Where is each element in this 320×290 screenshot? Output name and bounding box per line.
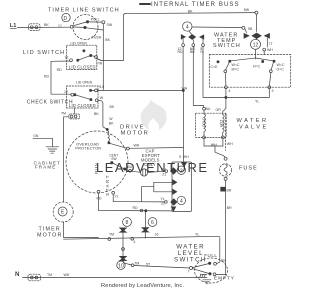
svg-text:BK: BK [94, 112, 99, 116]
svg-text:YL: YL [255, 100, 259, 104]
svg-text:PUSH: PUSH [92, 36, 102, 40]
svg-text:BK: BK [110, 105, 115, 109]
svg-text:HG: HG [221, 258, 226, 262]
svg-text:7: 7 [188, 270, 190, 274]
svg-text:2: 2 [180, 168, 183, 174]
svg-text:LID OPEN: LID OPEN [76, 81, 93, 85]
svg-text:BR: BR [227, 189, 232, 193]
svg-text:TM: TM [61, 112, 66, 116]
svg-text:O=C: O=C [277, 67, 285, 71]
svg-text:D: D [64, 16, 68, 22]
svg-text:START: START [105, 174, 110, 196]
svg-text:TM: TM [47, 273, 52, 277]
svg-text:WATER: WATER [237, 118, 269, 124]
svg-text:16: 16 [155, 233, 159, 237]
svg-text:YL: YL [195, 233, 199, 237]
svg-text:12: 12 [253, 42, 259, 48]
svg-text:YL: YL [161, 197, 165, 201]
svg-text:8: 8 [126, 220, 129, 226]
svg-text:5B: 5B [248, 27, 253, 31]
svg-text:4: 4 [134, 240, 136, 244]
svg-text:HOT: HOT [220, 119, 224, 127]
svg-text:PULL: PULL [91, 17, 100, 21]
svg-text:WH: WH [64, 273, 70, 277]
svg-text:VALVE: VALVE [239, 125, 269, 131]
svg-text:4: 4 [229, 89, 231, 93]
svg-text:WH: WH [182, 86, 188, 90]
svg-text:COLD: COLD [202, 117, 206, 127]
svg-text:E: E [61, 210, 65, 216]
svg-text:FRAME: FRAME [35, 165, 56, 170]
svg-text:INTERNAL TIMER BUSS: INTERNAL TIMER BUSS [151, 2, 240, 8]
svg-text:TM: TM [134, 262, 139, 266]
svg-text:RUN: RUN [94, 162, 99, 173]
svg-text:LI: LI [59, 24, 62, 28]
svg-text:12: 12 [65, 56, 69, 60]
svg-text:LID CLOSED: LID CLOSED [69, 65, 96, 70]
svg-text:FUSE: FUSE [239, 165, 258, 171]
svg-text:SW: SW [111, 157, 117, 161]
svg-text:7W: 7W [97, 61, 103, 65]
svg-text:L1: L1 [10, 23, 17, 29]
svg-text:12: 12 [64, 90, 68, 94]
svg-text:Rendered by LeadVenture, Inc.: Rendered by LeadVenture, Inc. [101, 283, 184, 289]
svg-text:TM: TM [109, 233, 114, 237]
svg-text:10: 10 [118, 263, 124, 269]
svg-text:FULL: FULL [204, 253, 217, 258]
svg-text:5: 5 [179, 155, 181, 159]
svg-text:RD: RD [133, 206, 139, 210]
svg-text:ONLY: ONLY [144, 162, 156, 167]
svg-text:4: 4 [186, 25, 189, 31]
svg-text:RD: RD [178, 50, 184, 54]
svg-text:4: 4 [180, 199, 183, 205]
svg-text:CHECK SWITCH: CHECK SWITCH [27, 99, 73, 105]
svg-text:PROTECTOR: PROTECTOR [75, 146, 101, 151]
svg-text:MOTOR: MOTOR [121, 131, 150, 137]
svg-text:WH: WH [134, 144, 140, 148]
svg-text:DRIVE: DRIVE [120, 125, 145, 131]
svg-text:YL: YL [200, 50, 204, 54]
svg-text:LID SWITCH: LID SWITCH [23, 50, 65, 56]
svg-text:WH: WH [227, 142, 233, 146]
svg-text:5.0: 5.0 [99, 85, 104, 89]
svg-text:SWITCH: SWITCH [174, 256, 207, 263]
svg-text:SW: SW [107, 23, 113, 27]
svg-text:RD: RD [97, 197, 103, 201]
svg-text:BK: BK [188, 10, 193, 14]
svg-text:WH: WH [211, 143, 217, 147]
svg-text:C=E: C=E [211, 65, 219, 69]
svg-text:N: N [15, 271, 20, 278]
svg-text:21: 21 [162, 173, 166, 177]
svg-text:W=C: W=C [277, 63, 285, 67]
svg-text:SWITCH: SWITCH [213, 43, 241, 49]
svg-text:BK: BK [44, 23, 49, 27]
svg-text:LID OPEN: LID OPEN [71, 42, 88, 46]
svg-text:RD: RD [44, 74, 50, 78]
svg-text:W=C: W=C [232, 63, 240, 67]
svg-text:MOTOR: MOTOR [37, 232, 62, 238]
svg-text:YL: YL [114, 195, 118, 199]
svg-text:TIMER LINE SWITCH: TIMER LINE SWITCH [48, 8, 120, 14]
svg-text:WH: WH [267, 48, 273, 52]
svg-text:5W: 5W [244, 8, 250, 12]
svg-text:BU: BU [206, 107, 211, 111]
svg-text:BU: BU [127, 165, 132, 169]
svg-text:OR: OR [216, 108, 222, 112]
svg-text:BU: BU [161, 167, 166, 171]
svg-text:H=C: H=C [253, 64, 261, 68]
svg-text:RD: RD [57, 68, 63, 72]
svg-text:22: 22 [161, 202, 165, 206]
svg-text:WH: WH [183, 155, 189, 159]
svg-text:EMPTY: EMPTY [214, 275, 235, 280]
svg-text:M=C: M=C [232, 67, 240, 71]
svg-text:GN: GN [33, 134, 39, 138]
svg-text:BU: BU [190, 50, 195, 54]
svg-text:BR: BR [227, 206, 232, 210]
svg-text:BK: BK [105, 38, 110, 42]
svg-text:3: 3 [272, 89, 274, 93]
svg-text:BK: BK [109, 121, 114, 125]
svg-text:6: 6 [151, 220, 154, 226]
